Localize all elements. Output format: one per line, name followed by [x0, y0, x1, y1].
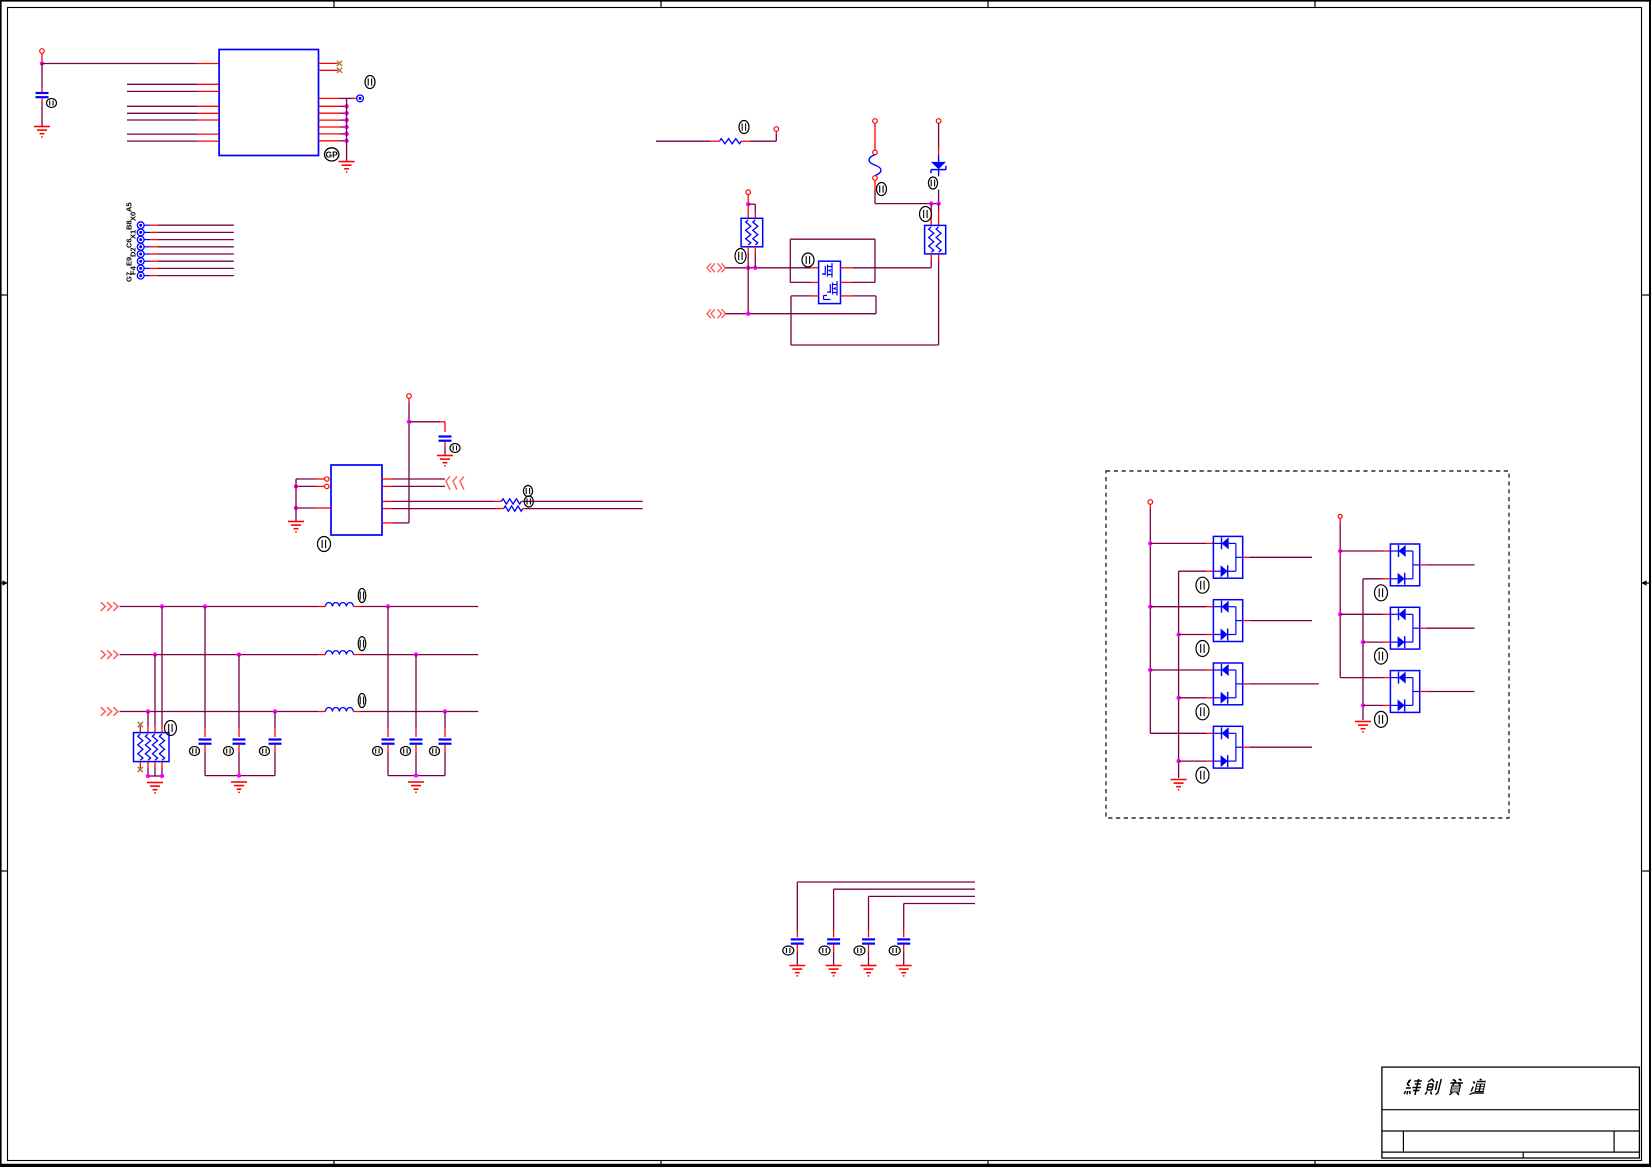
junction node C3	[746, 202, 750, 206]
svg-text:GP: GP	[326, 150, 339, 160]
svg-text:D2: D2	[129, 247, 138, 257]
cap group A bus	[205, 775, 275, 777]
wire bottom pin D12	[1179, 634, 1214, 636]
wire right pin D11	[1243, 556, 1312, 558]
junction phase2 b	[237, 652, 241, 656]
U10 left pin row3	[791, 295, 819, 297]
junction rail2 d3	[1176, 696, 1180, 700]
U12 right pin 3 resistor R7	[382, 499, 643, 504]
capacitor C14	[410, 655, 423, 776]
junction phase3 c	[443, 709, 447, 713]
wire F1-D1 junction	[875, 203, 939, 205]
junction phase1 b	[203, 604, 207, 608]
junction rail2 d4	[1176, 759, 1180, 763]
wire U12 left rail	[295, 479, 297, 521]
U10 right pin row1	[841, 267, 932, 269]
power pin VCC2	[774, 127, 779, 142]
diode array D23	[1390, 671, 1419, 713]
capacitor C11	[233, 655, 246, 776]
off-page connector OP1	[707, 263, 726, 272]
no-connect pin U1 NC1	[319, 61, 343, 66]
wire right pin D21	[1420, 564, 1475, 566]
power pin VCC1	[40, 49, 45, 64]
wire R5 right leg	[938, 254, 940, 345]
label C20	[783, 946, 794, 955]
wire net3	[869, 896, 976, 930]
wire right rail 2	[1362, 579, 1364, 720]
wire phase 3	[120, 711, 479, 713]
label R3	[739, 121, 749, 134]
U10 right pin row2	[841, 281, 876, 283]
wire OP2	[726, 313, 876, 315]
wire bottom pin D23	[1363, 704, 1390, 706]
wire top pin D12	[1150, 606, 1213, 608]
off-page connector OP2	[707, 309, 726, 318]
label L2	[358, 637, 366, 651]
junction node D3	[294, 484, 298, 488]
svg-text:X0: X0	[129, 212, 138, 221]
label D13	[1196, 704, 1209, 720]
diode array D22	[1390, 607, 1419, 649]
wire phase 2	[120, 654, 479, 656]
wire net4	[904, 904, 975, 931]
svg-text:C6: C6	[125, 238, 134, 248]
label D21	[1375, 585, 1388, 601]
inductor L2	[325, 651, 353, 655]
label C14	[401, 747, 411, 756]
label GP power	[325, 148, 339, 161]
label C21	[819, 946, 830, 955]
capacitor C15	[439, 712, 452, 776]
off-page connector phase 1	[101, 602, 118, 611]
wire top pin D14	[1150, 732, 1213, 734]
wire bottom pin D21	[1363, 578, 1390, 580]
no-connect RN1 pin1 bottom	[138, 762, 143, 773]
capacitor C20	[791, 930, 804, 966]
label D14	[1196, 767, 1209, 783]
label U10	[802, 253, 814, 267]
label C10	[190, 747, 200, 756]
label D22	[1375, 648, 1388, 664]
capacitor C1	[36, 64, 49, 127]
junction rail1 d2	[1148, 605, 1152, 609]
resistor pack R5	[925, 225, 946, 254]
wire right pin D12	[1243, 620, 1312, 622]
label C11	[224, 747, 234, 756]
power pin VCC8	[1338, 514, 1342, 523]
junction node C1	[746, 266, 750, 270]
zener diode D1	[931, 148, 946, 176]
wire to C7	[409, 421, 445, 423]
svg-text:X1: X1	[129, 230, 138, 239]
label D23	[1375, 711, 1388, 727]
svg-text:E9: E9	[125, 257, 134, 266]
junction node C2	[753, 266, 757, 270]
junction phase1 a	[160, 604, 164, 608]
junction node B1	[929, 201, 933, 205]
label RN1	[165, 721, 177, 736]
power pin VCC6	[407, 394, 412, 523]
junction RN1 a	[146, 774, 150, 778]
junction phase2 a	[153, 652, 157, 656]
wire left rail 1	[1149, 509, 1151, 733]
wire top pin D13	[1150, 669, 1213, 671]
border center arrow left	[0, 580, 8, 586]
ground GND10	[861, 966, 877, 977]
diode array D21	[1390, 544, 1419, 586]
wire RN1 leg3	[154, 655, 156, 733]
wire bottom pin D22	[1363, 641, 1390, 643]
off-page connector OP3	[446, 476, 464, 489]
label F1	[877, 183, 887, 196]
diode array D13	[1213, 663, 1242, 705]
label C23	[889, 946, 900, 955]
label R2	[735, 249, 746, 264]
wire net2	[834, 889, 975, 930]
label C12	[260, 747, 270, 756]
wires into R5	[931, 204, 938, 226]
U12 right pin 4 resistor R8	[382, 506, 643, 511]
wire top pin D22	[1340, 613, 1390, 615]
junction phase3 b	[273, 709, 277, 713]
junction node C4	[746, 312, 750, 316]
dashed option box	[1106, 471, 1509, 818]
wire net1	[797, 882, 975, 930]
wire R2 left leg	[747, 247, 749, 314]
wire RN1 leg4	[147, 712, 149, 733]
wire row3 left drop	[790, 296, 792, 345]
resistor network RN1	[134, 733, 170, 762]
label J1	[365, 76, 375, 89]
U12 left pin 1	[296, 477, 329, 481]
border center arrow right	[1642, 580, 1651, 586]
label U12	[318, 537, 331, 552]
company name glyph wei	[1404, 1079, 1423, 1095]
wire F1 down	[874, 180, 876, 203]
wire row3 right drop	[875, 296, 877, 314]
ground GND5	[147, 783, 163, 794]
wire top pin D21	[1340, 550, 1390, 552]
capacitor C23	[897, 930, 910, 966]
wire OP1 to U10	[726, 267, 819, 269]
U10 left pin row2	[790, 281, 818, 283]
svg-text:G7: G7	[125, 272, 134, 282]
wire bottom pin D11	[1179, 570, 1214, 572]
label C7	[450, 444, 460, 453]
junction node D4	[294, 506, 298, 510]
U12 right pin 1	[382, 478, 445, 480]
title block	[1382, 1067, 1640, 1158]
junction rail2 d2	[1176, 632, 1180, 636]
power pin VCC7	[1148, 500, 1153, 509]
junction busB	[414, 773, 418, 777]
ground GND4	[288, 522, 304, 533]
cap group B bus	[388, 775, 445, 777]
junction phase2 c	[414, 652, 418, 656]
no-connect pin U1 NC2	[319, 68, 343, 73]
wire RN1 leg2	[161, 607, 163, 733]
junction node D2	[407, 420, 411, 424]
wire GND bus vertical	[346, 98, 348, 161]
ground GND6	[231, 782, 247, 793]
U12 bottom pin	[382, 522, 409, 524]
vertical net name labels	[125, 202, 138, 282]
ground GND3	[437, 456, 453, 467]
label D12	[1196, 641, 1209, 657]
no-connect RN1 pin1 top	[138, 722, 143, 733]
U12 right pin 2	[382, 485, 445, 487]
ground GND8	[789, 966, 805, 977]
junction node B2	[936, 201, 940, 205]
capacitor C7	[439, 422, 452, 455]
wire right pin D14	[1243, 746, 1312, 748]
junction node A1	[40, 61, 44, 65]
U12 left pin 3	[296, 507, 331, 509]
label R7	[523, 486, 532, 497]
wire loop top	[790, 239, 875, 282]
wire R5 left leg	[930, 254, 932, 268]
connector J1	[357, 95, 364, 102]
wire top pin D11	[1150, 542, 1213, 544]
wire bottom pin D13	[1179, 697, 1214, 699]
resistor R3	[656, 139, 776, 144]
wire right pin D22	[1420, 627, 1475, 629]
company name glyph zi	[1448, 1079, 1464, 1095]
company name glyph chuang	[1425, 1079, 1441, 1095]
IC U10	[819, 261, 841, 303]
wire R2 right leg	[754, 247, 756, 268]
power pin VCC5	[746, 190, 751, 204]
svg-text:A5: A5	[125, 202, 134, 212]
label C15	[430, 747, 440, 756]
IC U12	[331, 465, 382, 535]
junction rrail2 d3	[1361, 703, 1365, 707]
U10 right pin row3	[841, 295, 877, 297]
off-page connector phase 2	[101, 650, 118, 659]
U1 left pin wires	[127, 84, 219, 141]
wire U1 to J1	[319, 97, 357, 99]
wire bottom return	[791, 344, 939, 346]
resistor pack R2 top wires	[748, 204, 755, 218]
wire right rail 1	[1339, 523, 1341, 678]
IC U1	[219, 50, 318, 156]
junction rrail1 d1	[1338, 549, 1342, 553]
junction rrail1 d2	[1338, 612, 1342, 616]
capacitor C12	[269, 712, 282, 776]
ground GND13	[1355, 722, 1371, 733]
capacitor C21	[827, 930, 840, 966]
junction rail1 d3	[1148, 668, 1152, 672]
ground GND12	[1171, 780, 1187, 791]
diode array D14	[1213, 726, 1242, 768]
junction phase1 c	[386, 604, 390, 608]
resistor pack R2	[741, 218, 763, 247]
label C22	[854, 946, 865, 955]
diode array D12	[1213, 600, 1242, 642]
capacitor C13	[382, 607, 395, 776]
label C13	[373, 747, 383, 756]
wire VCC to U1 pin1	[42, 63, 219, 65]
U1 right pins to GND bus	[319, 104, 349, 143]
ground GND11	[896, 966, 912, 977]
capacitor C22	[862, 930, 875, 966]
label D11	[1196, 577, 1209, 593]
company name glyph tong	[1469, 1079, 1486, 1095]
junction rrail2 d2	[1361, 640, 1365, 644]
wire bottom pin D14	[1179, 760, 1214, 762]
wire right pin D23	[1420, 691, 1475, 693]
power pin VCC3	[873, 119, 878, 150]
U12 left pin 2	[296, 484, 329, 488]
wire D1 down	[938, 190, 940, 204]
label R8	[524, 496, 533, 507]
connector pins J2 with wires	[137, 222, 234, 279]
fuse F1	[869, 150, 881, 180]
label L1	[358, 589, 366, 603]
RN1 bottom legs	[148, 762, 162, 776]
inductor L1	[325, 603, 353, 607]
wire left rail 2	[1178, 571, 1180, 778]
off-page connector phase 3	[101, 707, 118, 716]
junction RN1 b	[160, 774, 164, 778]
ground GND2	[339, 162, 355, 173]
diode array D11	[1213, 536, 1242, 578]
ground GND7	[408, 782, 424, 793]
wire phase 1	[120, 606, 479, 608]
ground GND9	[826, 966, 842, 977]
wire top pin D23	[1340, 677, 1390, 679]
junction rail1 d1	[1148, 541, 1152, 545]
label C1	[47, 99, 57, 108]
label R5	[920, 207, 932, 222]
svg-text:B8: B8	[125, 220, 134, 230]
power pin VCC4	[936, 119, 941, 148]
label L3	[358, 694, 366, 708]
junction phase3 a	[146, 709, 150, 713]
inductor L3	[325, 708, 353, 712]
label D1	[928, 177, 937, 189]
capacitor C10	[199, 607, 212, 776]
ground GND1	[34, 127, 50, 138]
junction busA	[237, 773, 241, 777]
wire right pin D13	[1243, 683, 1319, 685]
